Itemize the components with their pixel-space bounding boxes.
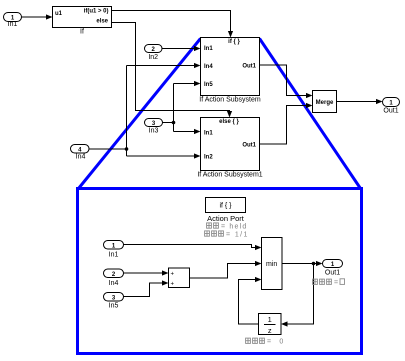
svg-text:In3: In3 xyxy=(149,128,159,135)
svg-text:In4: In4 xyxy=(204,64,213,70)
svg-text:In5: In5 xyxy=(204,82,213,88)
svg-text:Out1: Out1 xyxy=(242,143,256,149)
svg-text:In1: In1 xyxy=(204,46,213,52)
svg-text:= held: = held xyxy=(221,223,247,230)
svg-text:In4: In4 xyxy=(76,154,86,161)
svg-text:In2: In2 xyxy=(204,155,213,161)
svg-text:In1: In1 xyxy=(109,252,119,259)
svg-text:=: = xyxy=(334,280,338,287)
svg-text:Action Port: Action Port xyxy=(207,214,245,223)
svg-text:Out1: Out1 xyxy=(325,270,340,277)
svg-text:Out1: Out1 xyxy=(383,108,398,115)
svg-text:if { }: if { } xyxy=(219,203,232,210)
svg-text:u1: u1 xyxy=(55,11,63,17)
svg-text:In2: In2 xyxy=(148,54,158,61)
svg-text:else: else xyxy=(96,19,108,25)
svg-text:else { }: else { } xyxy=(219,119,239,125)
svg-text:In5: In5 xyxy=(109,303,119,310)
svg-text:if(u1 > 0): if(u1 > 0) xyxy=(84,9,109,15)
svg-text:= 0: = 0 xyxy=(267,339,287,346)
svg-text:if { }: if { } xyxy=(228,39,240,45)
svg-text:If Action Subsystem: If Action Subsystem xyxy=(199,97,261,104)
svg-text:+: + xyxy=(171,282,175,288)
svg-text:+: + xyxy=(171,272,175,278)
svg-text:In4: In4 xyxy=(109,280,119,287)
svg-text:In1: In1 xyxy=(8,21,18,28)
svg-text:Out1: Out1 xyxy=(242,64,256,70)
svg-text:If Action Subsystem1: If Action Subsystem1 xyxy=(197,172,262,179)
svg-text:z: z xyxy=(268,326,272,335)
svg-text:Merge: Merge xyxy=(316,100,334,106)
svg-text:If: If xyxy=(80,29,84,36)
svg-text:In1: In1 xyxy=(204,131,213,137)
svg-text:= 1/1: = 1/1 xyxy=(226,231,249,238)
svg-text:min: min xyxy=(266,261,277,268)
svg-text:1: 1 xyxy=(268,315,272,324)
